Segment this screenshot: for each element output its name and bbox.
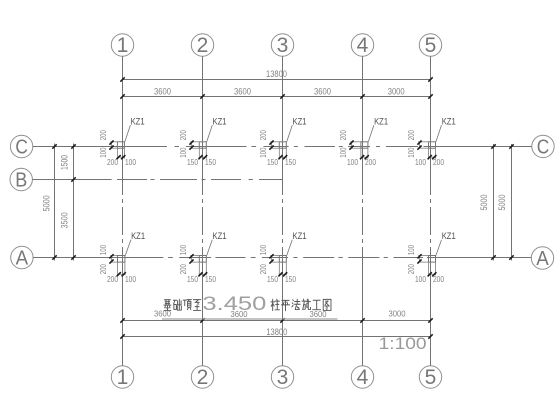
svg-text:13800: 13800 [266,327,287,337]
grid bubble B left [10,168,32,190]
column KZ1 A-1 [99,231,145,284]
column KZ1 C-2 [179,116,227,167]
svg-text:3: 3 [277,366,289,389]
column KZ1 C-4 [339,116,388,167]
svg-text:KZ1: KZ1 [213,116,227,126]
svg-text:100: 100 [179,147,188,158]
svg-text:1500: 1500 [60,155,70,170]
column KZ1 A-3 [259,231,307,284]
grid bubble 1 bottom [111,366,133,388]
svg-text:KZ1: KZ1 [213,231,227,241]
svg-text:13800: 13800 [266,69,287,79]
svg-text:200: 200 [107,158,118,167]
svg-text:200: 200 [365,158,376,167]
svg-text:5000: 5000 [497,195,507,211]
grid bubble 5 bottom [419,366,441,388]
svg-text:3600: 3600 [154,308,171,318]
column KZ1 C-1 [99,116,145,167]
grid bubble 4 top [351,34,373,56]
title text 基础顶至 [164,299,201,310]
svg-text:100: 100 [125,275,136,284]
axis line 2 vertical [202,56,204,167]
svg-text:100: 100 [407,147,416,158]
axis line C horizontal [33,146,167,148]
svg-text:200: 200 [259,130,268,141]
svg-text:200: 200 [99,130,108,141]
svg-text:5: 5 [425,34,437,57]
svg-text:200: 200 [107,275,118,284]
svg-text:100: 100 [259,244,268,255]
svg-text:150: 150 [285,158,296,167]
dimension line left segments 1500/3500 [73,144,75,261]
svg-text:200: 200 [179,130,188,141]
grid bubble 2 bottom [191,366,213,388]
svg-text:100: 100 [125,158,136,167]
grid bubble 2 top [191,34,213,56]
svg-text:100: 100 [347,158,358,167]
svg-text:3000: 3000 [389,308,406,318]
svg-text:B: B [15,170,27,192]
svg-text:1:100: 1:100 [379,334,427,353]
grid bubble A left [11,246,33,268]
svg-text:KZ1: KZ1 [131,231,145,241]
svg-text:5: 5 [425,366,437,389]
svg-text:200: 200 [407,130,416,141]
svg-text:100: 100 [99,147,108,158]
svg-text:200: 200 [259,264,268,275]
column KZ1 A-5 [407,231,456,284]
column KZ1 A-2 [179,231,227,284]
svg-text:100: 100 [339,147,348,158]
svg-text:KZ1: KZ1 [442,116,456,126]
axis line 3 vertical [282,56,284,167]
svg-text:150: 150 [285,275,296,284]
axis line 4 vertical [362,56,364,167]
grid bubble C right [532,135,554,157]
grid bubble 5 top [419,34,441,56]
svg-text:2: 2 [197,34,209,57]
svg-text:200: 200 [179,264,188,275]
axis line 5 vertical [430,56,432,167]
svg-text:200: 200 [339,130,348,141]
svg-text:200: 200 [407,264,416,275]
dimension line top total 13800 [123,79,431,81]
axis line 1 vertical [122,56,124,167]
grid bubble 1 top [111,34,133,56]
column KZ1 C-5 [407,116,456,167]
dimension line left total 5000 [54,144,56,261]
axis line A horizontal [33,257,163,259]
svg-text:3500: 3500 [60,212,70,228]
svg-text:200: 200 [433,275,444,284]
svg-text:150: 150 [187,158,198,167]
svg-text:C: C [15,137,28,159]
dimension line right 5000 a [493,144,495,261]
dimension line top segments [123,96,431,98]
svg-text:5000: 5000 [41,195,51,211]
grid bubble 3 top [271,34,293,56]
title underline [162,318,338,320]
svg-text:200: 200 [433,158,444,167]
svg-text:KZ1: KZ1 [131,116,145,126]
svg-text:100: 100 [407,244,416,255]
svg-text:3: 3 [277,34,289,57]
svg-text:KZ1: KZ1 [293,116,307,126]
svg-text:1: 1 [117,366,129,389]
svg-text:4: 4 [357,34,369,57]
grid bubble C left [10,135,32,157]
svg-text:2: 2 [197,366,209,389]
svg-text:100: 100 [415,158,426,167]
svg-text:A: A [16,248,29,270]
dimension line bottom total 13800 [123,336,431,338]
title text 柱平法施工图 [271,299,331,311]
grid bubble 3 bottom [271,366,293,388]
svg-text:5000: 5000 [479,195,489,211]
svg-text:KZ1: KZ1 [442,231,456,241]
svg-text:3000: 3000 [388,87,405,97]
svg-text:KZ1: KZ1 [374,116,388,126]
svg-text:1: 1 [117,34,129,57]
svg-text:100: 100 [415,275,426,284]
svg-text:150: 150 [187,275,198,284]
svg-text:100: 100 [179,244,188,255]
column KZ1 C-3 [259,116,307,167]
svg-text:150: 150 [267,275,278,284]
svg-text:A: A [536,248,549,270]
svg-text:3600: 3600 [154,87,171,97]
dimension line right 5000 b [511,144,513,261]
svg-text:150: 150 [267,158,278,167]
svg-text:100: 100 [99,244,108,255]
svg-text:4: 4 [357,366,369,389]
svg-text:3600: 3600 [314,87,331,97]
svg-text:3.450: 3.450 [202,293,266,315]
dimension line bottom segments [123,320,431,322]
svg-text:100: 100 [259,147,268,158]
axis line B horizontal [32,179,111,181]
svg-text:150: 150 [205,275,216,284]
grid bubble 4 bottom [351,366,373,388]
svg-text:200: 200 [99,264,108,275]
grid bubble A right [531,247,553,269]
svg-text:150: 150 [205,158,216,167]
svg-text:C: C [537,137,550,159]
svg-text:3600: 3600 [234,87,251,97]
svg-text:KZ1: KZ1 [293,231,307,241]
